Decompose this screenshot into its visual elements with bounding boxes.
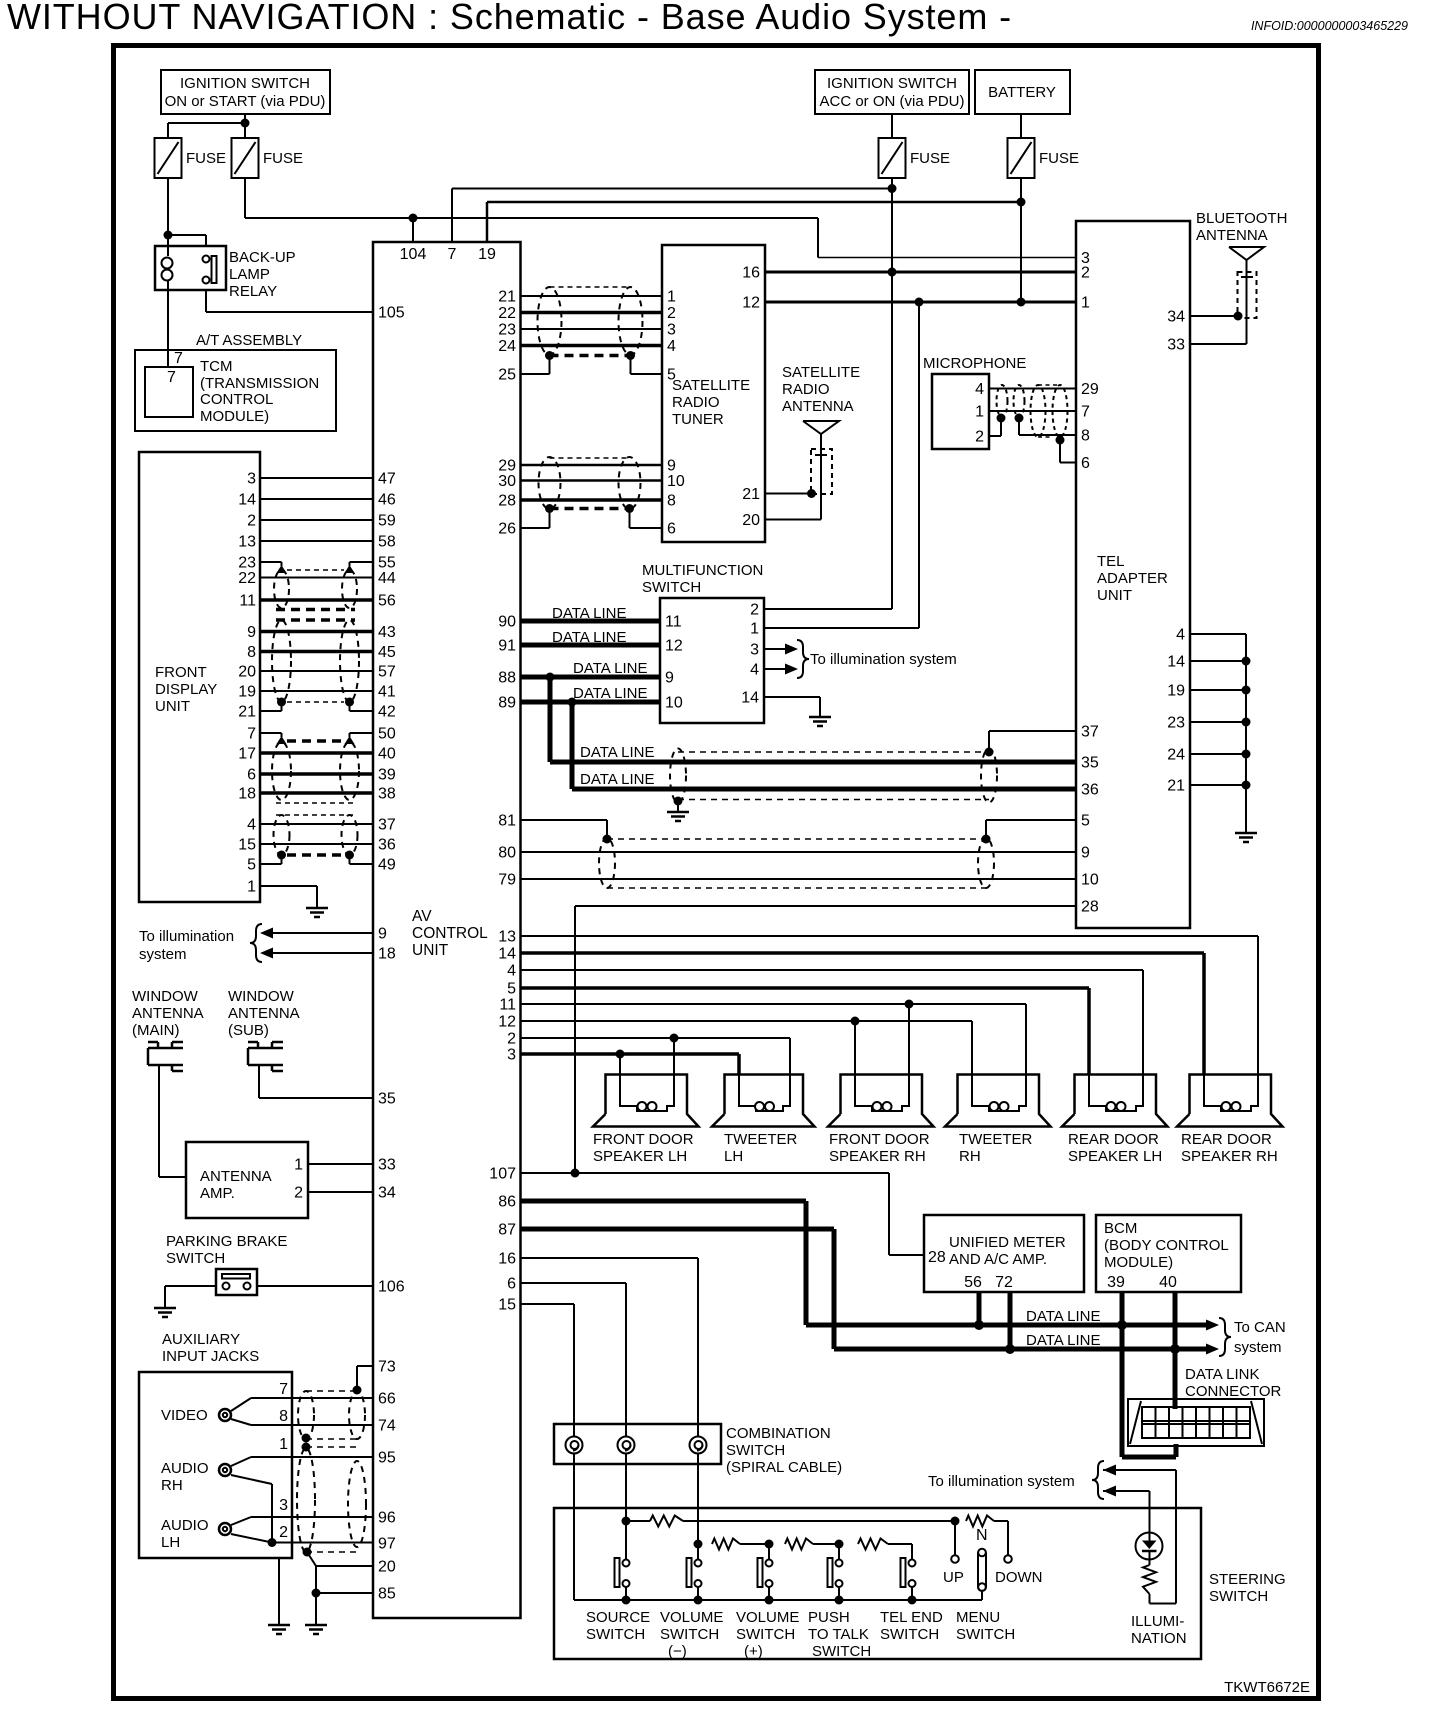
svg-text:79: 79 [498,872,516,889]
node TEL ground bus junction y661 [1242,657,1251,666]
svg-text:16: 16 [742,265,760,282]
node TEL ground bus junction y754 [1242,750,1251,759]
infoid label [1251,19,1408,33]
wire jack box to ground [278,1558,280,1625]
svg-text:DATA LINE: DATA LINE [1026,1308,1100,1325]
svg-text:AV: AV [412,908,432,925]
svg-text:STEERING: STEERING [1209,1571,1286,1588]
wire FDU 9-43 [260,630,373,634]
wire AV 87 (CAN data line) [521,1229,1207,1349]
svg-text:LH: LH [724,1148,743,1165]
data line label 36 [580,771,654,788]
node UM56 junction [974,1320,984,1330]
svg-text:SPEAKER RH: SPEAKER RH [829,1148,926,1165]
svg-text:ANTENNA: ANTENNA [200,1168,272,1185]
shield group 81-5 [599,838,994,888]
audio LH jack [161,1517,231,1551]
node bus junction x839 [835,1596,844,1605]
wire AV 12 speaker feed [521,1021,973,1075]
svg-text:19: 19 [1167,683,1185,700]
wire BCM 40 to CAN and DLC [1173,1292,1178,1409]
wire AV 23-3 tuner [521,328,663,330]
svg-text:NATION: NATION [1131,1630,1187,1647]
wire AV 26 shield drain [521,509,550,529]
svg-text:1: 1 [975,404,984,421]
data line label 35 [580,744,654,761]
wire LED to resistor [1149,1551,1151,1565]
svg-text:20: 20 [742,512,760,529]
svg-text:TKWT6672E: TKWT6672E [1224,1679,1310,1696]
ignition switch ACC box [815,70,969,114]
svg-text:56: 56 [378,593,396,610]
svg-text:18: 18 [238,786,256,803]
svg-text:49: 49 [378,857,396,874]
svg-text:ANTENNA: ANTENNA [132,1005,204,1022]
parking brake switch [216,1269,257,1295]
ground jacks left [268,1625,290,1634]
svg-text:20: 20 [378,1559,396,1576]
svg-text:system: system [1234,1339,1282,1356]
shield group FDU-2 [272,620,359,707]
svg-text:ACC or ON (via PDU): ACC or ON (via PDU) [819,93,964,110]
shield group mic-1 [997,385,1025,417]
svg-text:SWITCH: SWITCH [956,1626,1015,1643]
source switch label [586,1609,650,1643]
wire AV 11 speaker feed [521,1004,1027,1075]
svg-text:3: 3 [247,471,256,488]
svg-text:57: 57 [378,664,396,681]
wire MFS pin 2 to ACC [764,608,892,610]
unified meter and A/C amp box [924,1215,1084,1292]
svg-text:CONNECTOR: CONNECTOR [1185,1383,1282,1400]
to CAN system label [1234,1319,1286,1356]
wire speaker branch 11 [908,1004,910,1075]
down label [995,1569,1043,1586]
svg-text:3: 3 [279,1497,288,1514]
svg-text:MICROPHONE: MICROPHONE [923,355,1026,372]
wire mic 1 to TEL 7 [989,410,1076,412]
microphone label [923,355,1026,372]
svg-text:24: 24 [498,338,516,355]
svg-text:89: 89 [498,695,516,712]
svg-text:25: 25 [498,367,516,384]
svg-text:2: 2 [667,305,676,322]
to illumination system label [139,928,234,963]
svg-text:19: 19 [238,684,256,701]
fuse F1 (ON/START - relay) [155,138,227,178]
svg-text:13: 13 [238,534,256,551]
wire TEL 34 to antenna shield [1190,315,1238,317]
brace illumination left [250,924,262,962]
resistor source row [626,1516,955,1527]
wire FDU 7-50 shield drain [260,733,373,737]
wire parking brake to AV 106 [257,1285,373,1287]
MFS right pin labels [741,602,759,707]
wire FDU 14-46 [260,498,373,500]
node speaker junction 2 [670,1034,679,1043]
node volume+ row junction [765,1540,774,1549]
svg-text:RELAY: RELAY [229,283,277,300]
speaker tweeter RH [945,1075,1051,1166]
wire tuner 20 to antenna [765,519,821,521]
title [7,0,1012,37]
svg-text:7: 7 [1081,404,1090,421]
node UM72 junction [1005,1344,1015,1354]
svg-text:ILLUMI-: ILLUMI- [1131,1613,1184,1630]
svg-text:55: 55 [378,555,396,572]
svg-text:SWITCH: SWITCH [660,1626,719,1643]
wire tuner 16 to TEL 2 [765,271,1076,274]
switch volume- [687,1558,702,1600]
wire switch bus [574,1591,982,1600]
svg-text:95: 95 [378,1450,396,1467]
AV control unit box [373,242,521,1618]
svg-text:INFOID:0000000003465229: INFOID:0000000003465229 [1251,19,1408,33]
svg-text:SWITCH: SWITCH [1209,1588,1268,1605]
svg-text:MODULE): MODULE) [200,408,269,425]
TEL left pin labels [1081,250,1099,916]
ground parking brake [154,1308,176,1317]
node source row junction [622,1517,631,1526]
wire BCM 39 to CAN and DLC [1122,1292,1176,1457]
wire AV 18 to illumination [260,948,373,959]
svg-text:36: 36 [378,837,396,854]
volume+ switch label [736,1609,799,1660]
svg-text:20: 20 [238,664,256,681]
wire TEL right pins to ground bus [1190,634,1246,833]
svg-text:2: 2 [1081,265,1090,282]
video jack [161,1407,231,1424]
svg-text:DISPLAY: DISPLAY [155,681,217,698]
svg-text:ANTENNA: ANTENNA [228,1005,300,1022]
svg-text:42: 42 [378,704,396,721]
front display unit box [139,452,260,902]
svg-text:SWITCH: SWITCH [642,579,701,596]
svg-text:19: 19 [478,246,496,263]
svg-text:PARKING BRAKE: PARKING BRAKE [166,1233,287,1250]
wire relay to AV pin 105 [206,290,373,312]
svg-text:14: 14 [741,690,759,707]
svg-text:AUDIO: AUDIO [161,1460,209,1477]
wire FDU 23-55 shield drain [260,562,373,566]
wire AV 86 (CAN data line) [521,1201,1207,1325]
wire speaker branch 12 [854,1021,856,1075]
window antenna MAIN symbol [148,1042,183,1071]
node bluetooth shield junction [1234,312,1243,321]
svg-text:4: 4 [667,338,676,355]
svg-text:1: 1 [667,289,676,306]
node bus junction x698 [694,1596,703,1605]
wire AV pin 19 to BATT [487,202,1021,242]
microphone pin labels [975,381,984,446]
svg-text:3: 3 [750,642,759,659]
node TEL ground bus junction y722 [1242,718,1251,727]
wire TEL 33 to antenna [1190,318,1247,344]
wire PTT feed [838,1544,840,1560]
ignition switch ON/START box [161,70,330,114]
shield group tuner-1 [538,287,643,360]
window antenna SUB label [228,988,300,1039]
wire FDU 22-44 [260,577,373,579]
svg-text:38: 38 [378,786,396,803]
wire AV 107 to unified meter 28 [521,1173,925,1255]
svg-text:28: 28 [1081,899,1099,916]
node shield 5 junction [982,835,991,844]
wire AV 25 shield drain [521,356,550,375]
svg-text:BATTERY: BATTERY [988,84,1056,101]
svg-text:28: 28 [498,493,516,510]
svg-text:5: 5 [507,981,516,998]
wire MFS 14 to ground [764,697,820,717]
svg-text:CONTROL: CONTROL [200,391,273,408]
wire FDU 5-49 shield drain [260,855,373,864]
resistor volume row 2 [785,1539,839,1550]
svg-text:12: 12 [742,295,760,312]
wire audio RH fan [231,1457,272,1543]
shield group jacks audio [297,1447,366,1552]
svg-text:90: 90 [498,614,516,631]
svg-text:2: 2 [507,1031,516,1048]
node jack audio shield junction [303,1548,312,1557]
TEL adapter unit box [1076,221,1190,928]
svg-text:40: 40 [1159,1274,1177,1291]
svg-text:106: 106 [378,1279,405,1296]
wire illumination feed upper [1103,1465,1176,1476]
svg-text:30: 30 [498,473,516,490]
svg-text:34: 34 [1167,309,1185,326]
multifunction switch label [642,562,763,596]
node jack shield top junction [353,1386,362,1395]
svg-text:MENU: MENU [956,1609,1000,1626]
wire parking brake to ground [165,1286,216,1308]
node data line 89 junction [568,698,577,707]
wire speaker branch 2 [673,1038,675,1075]
wire mic 4 to TEL 29 [989,388,1076,390]
svg-text:5: 5 [247,857,256,874]
svg-text:39: 39 [378,767,396,784]
svg-text:FUSE: FUSE [910,150,950,167]
resistor illumination [1143,1565,1156,1594]
resistor N (menu) [966,1516,1008,1545]
svg-text:LAMP: LAMP [229,266,270,283]
svg-text:REAR DOOR: REAR DOOR [1181,1131,1272,1148]
svg-text:DATA LINE: DATA LINE [1026,1332,1100,1349]
wire TEL 28 to AV 107 net [575,906,1076,1173]
wire AV 15 to spiral 1 [521,1304,575,1437]
svg-text:4: 4 [247,817,256,834]
wire AV 79 to TEL 10 [521,878,1077,880]
wire AV 91 to MFS 12 (data line) [521,643,661,648]
up label [943,1569,964,1586]
wire spiral 1 to bus [573,1454,575,1601]
back-up lamp relay [155,246,296,300]
svg-text:1: 1 [279,1436,288,1453]
svg-text:system: system [139,946,187,963]
svg-text:To illumination system: To illumination system [928,1473,1075,1490]
svg-text:2: 2 [975,429,984,446]
svg-text:SATELLITE: SATELLITE [672,377,750,394]
wire shield to ground [677,801,679,812]
svg-text:4: 4 [975,381,984,398]
svg-text:35: 35 [378,1091,396,1108]
data line label 88 [573,660,647,677]
svg-text:TWEETER: TWEETER [724,1131,797,1148]
wire UP contact [951,1521,959,1563]
tuner right pin labels [742,265,760,530]
svg-text:5: 5 [1081,813,1090,830]
wire AV 16 to spiral 3 [521,1258,699,1437]
svg-text:73: 73 [378,1359,396,1376]
svg-text:SPEAKER LH: SPEAKER LH [1068,1148,1162,1165]
svg-text:COMBINATION: COMBINATION [726,1425,831,1442]
ground FDU [306,908,328,917]
svg-text:96: 96 [378,1510,396,1527]
wire AV 30-10 tuner [521,479,663,482]
wire AV 88 to MFS 9 (data line) [521,675,661,680]
svg-text:85: 85 [378,1586,396,1603]
svg-text:16: 16 [498,1251,516,1268]
shield group jacks video [298,1391,365,1439]
svg-text:TWEETER: TWEETER [959,1131,1032,1148]
svg-text:22: 22 [238,570,256,587]
svg-text:WITHOUT NAVIGATION : Schematic: WITHOUT NAVIGATION : Schematic - Base Au… [7,0,1012,37]
svg-text:MODULE): MODULE) [1104,1254,1173,1271]
data line label 91 [552,629,626,646]
svg-text:To CAN: To CAN [1234,1319,1286,1336]
ground TEL chain [1235,833,1257,842]
svg-text:CONTROL: CONTROL [412,925,488,942]
svg-text:15: 15 [238,837,256,854]
multifunction switch box [660,598,764,723]
svg-text:29: 29 [1081,381,1099,398]
switch source [615,1558,630,1600]
svg-text:DATA LINE: DATA LINE [580,744,654,761]
svg-text:2: 2 [750,602,759,619]
wire volume+ feed [768,1544,770,1560]
wire LED top [1149,1491,1151,1541]
node audio shield junction [268,1538,277,1547]
svg-text:56: 56 [964,1274,982,1291]
svg-text:36: 36 [1081,782,1099,799]
node TEL ground bus junction y785 [1242,781,1251,790]
wire mic 2 to shield [989,418,1001,436]
wire MFS 3 to illumination [764,644,798,655]
svg-text:TO TALK: TO TALK [808,1626,869,1643]
svg-text:50: 50 [378,726,396,743]
svg-text:9: 9 [1081,845,1090,862]
wire FDU 17-40 [260,751,373,755]
svg-text:7: 7 [174,350,183,367]
svg-text:1: 1 [1081,295,1090,312]
wire UM 72 to CAN [1008,1292,1013,1349]
svg-text:DATA LINK: DATA LINK [1185,1366,1259,1383]
svg-text:SWITCH: SWITCH [812,1643,871,1660]
data link connector label [1185,1366,1282,1400]
svg-text:A/T ASSEMBLY: A/T ASSEMBLY [196,332,302,349]
svg-text:DATA LINE: DATA LINE [573,660,647,677]
svg-text:(BODY CONTROL: (BODY CONTROL [1104,1237,1229,1254]
switch push-to-talk [828,1558,843,1600]
wire FDU 15-36 [260,843,373,845]
wire video jack fan [231,1398,251,1425]
svg-text:INPUT JACKS: INPUT JACKS [162,1348,259,1365]
svg-text:RADIO: RADIO [672,394,720,411]
svg-text:BACK-UP: BACK-UP [229,249,296,266]
wire video to AV 66 [251,1397,373,1399]
wire FDU 6-39 [260,772,373,776]
svg-text:BCM: BCM [1104,1220,1137,1237]
AV top pin labels 104 7 19 [400,246,496,263]
node bus junction x769 [765,1596,774,1605]
node jack shield link bottom [302,1443,311,1452]
svg-text:RH: RH [959,1148,981,1165]
svg-text:SPEAKER RH: SPEAKER RH [1181,1148,1278,1165]
svg-text:104: 104 [400,246,427,263]
svg-text:3: 3 [507,1047,516,1064]
svg-text:4: 4 [1176,627,1185,644]
node mic shield-2 junction [1056,436,1065,445]
MFS left pin labels [665,614,683,712]
svg-text:9: 9 [665,670,674,687]
svg-text:SOURCE: SOURCE [586,1609,650,1626]
svg-text:6: 6 [507,1276,516,1293]
speaker tweeter LH [712,1075,815,1166]
svg-text:23: 23 [1167,715,1185,732]
wire fuse F4 vertical (BATT feed) [1020,178,1022,302]
svg-text:7: 7 [167,369,176,386]
menu switch capsule [978,1549,986,1591]
wire illumination right leg [1175,1470,1177,1604]
wire AV 89 to MFS 10 (data line) [521,700,661,705]
brace CAN [1219,1318,1231,1356]
svg-text:1: 1 [247,879,256,896]
wire shield to TEL 37 [989,731,1076,752]
svg-text:8: 8 [279,1408,288,1425]
svg-text:6: 6 [1081,455,1090,472]
push to talk switch label [808,1609,871,1660]
svg-text:2: 2 [294,1185,303,1202]
wire jack audio shield to AV 20 [307,1552,373,1566]
TCM box [135,350,336,431]
svg-text:SWITCH: SWITCH [880,1626,939,1643]
antenna amp box [186,1142,308,1218]
node BCM40 junction [1170,1344,1180,1354]
svg-text:14: 14 [498,946,516,963]
svg-text:UNIT: UNIT [1097,587,1132,604]
svg-text:24: 24 [1167,747,1185,764]
svg-text:28: 28 [928,1249,946,1266]
node AV85 junction [312,1589,321,1598]
speaker rear door speaker LH [1062,1075,1168,1166]
resistor volume row 1 [712,1539,769,1550]
satellite radio antenna label [782,364,860,415]
svg-text:IGNITION SWITCH: IGNITION SWITCH [180,75,310,92]
arrow CAN line 2 [1206,1344,1219,1355]
node relay feed junction [164,231,173,240]
wire AV 28-8 tuner [521,498,663,502]
svg-text:35: 35 [1081,755,1099,772]
svg-text:FUSE: FUSE [263,150,303,167]
node menu row junction [951,1517,960,1526]
wire FDU 19-41 [260,690,373,692]
wire data line to TEL 36 [572,702,1076,789]
svg-text:AUXILIARY: AUXILIARY [162,1331,240,1348]
spiral cable contact 1 [566,1437,583,1454]
svg-text:23: 23 [498,322,516,339]
svg-text:N: N [976,1527,988,1544]
node tuner12 to MFS1 junction [915,298,924,307]
svg-text:46: 46 [378,492,396,509]
